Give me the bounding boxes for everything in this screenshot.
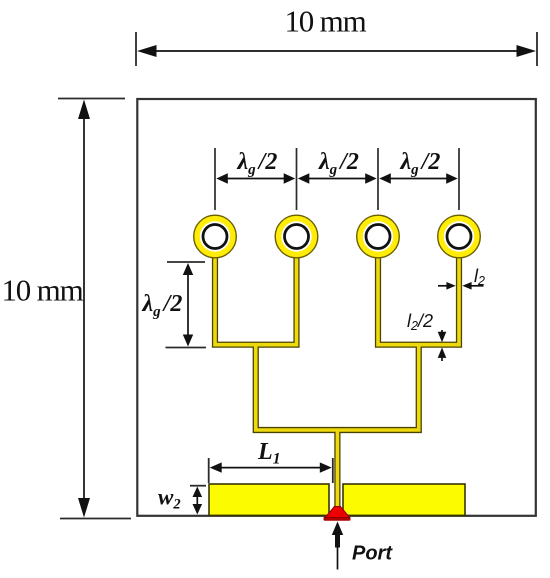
top dimension arrowhead left <box>137 45 157 57</box>
left dimension arrowhead down <box>78 498 90 518</box>
extension tick above ring 1 <box>214 148 216 210</box>
l2/2 dimension upper arrow <box>441 330 443 336</box>
extension tick above ring 4 <box>458 148 460 210</box>
svg-text:Port: Port <box>352 543 393 565</box>
top dimension arrowhead right <box>517 45 537 57</box>
top dimension tick right <box>536 32 538 66</box>
L1 dimension arrow line <box>221 467 321 469</box>
left dimension tick top <box>58 98 125 100</box>
svg-text:10 mm: 10 mm <box>285 4 367 39</box>
extension tick above ring 2 <box>296 148 298 210</box>
ground plane right part <box>343 484 465 515</box>
feed network copper layer <box>215 242 459 509</box>
port arrow <box>337 546 339 570</box>
vertical lambda-g/2 dimension top tick <box>167 261 205 263</box>
L1 dimension left tick <box>208 458 210 483</box>
l2 dimension right arrow <box>469 285 484 287</box>
top dimension tick left <box>135 32 137 66</box>
ring resonator 2 <box>275 215 318 258</box>
lambda-g/2 spacing arrow 3-4 <box>390 178 448 180</box>
left dimension arrowhead up <box>78 100 90 120</box>
lambda-g/2 spacing arrow 1-2 <box>227 178 285 180</box>
port feed triangle base <box>324 517 351 521</box>
ring resonator 1 <box>194 215 237 258</box>
vertical lambda-g/2 arrow line <box>187 275 189 335</box>
ground plane left part <box>209 484 329 515</box>
substrate outline (10mm x 10mm square) <box>137 99 536 516</box>
w2 dimension arrow line <box>196 492 198 508</box>
extension tick above ring 3 <box>377 148 379 210</box>
svg-text:l2/2: l2/2 <box>407 311 433 333</box>
left dimension arrow line <box>83 110 85 507</box>
w2 dimension top tick <box>190 485 206 487</box>
vertical lambda-g/2 dimension bottom tick <box>166 347 207 349</box>
svg-text:10 mm: 10 mm <box>2 273 84 308</box>
l2/2 dimension lower arrow <box>441 354 443 361</box>
left dimension tick bottom <box>60 518 131 520</box>
top dimension arrow line <box>148 50 524 52</box>
lambda-g/2 spacing arrow 2-3 <box>308 178 366 180</box>
L1 dimension right tick <box>332 458 334 483</box>
feed network outline layer <box>215 242 459 509</box>
l2 dimension left arrow <box>438 285 449 287</box>
ring resonator 3 <box>357 215 400 258</box>
port feed triangle <box>325 507 350 518</box>
ring resonator 4 <box>438 215 481 258</box>
